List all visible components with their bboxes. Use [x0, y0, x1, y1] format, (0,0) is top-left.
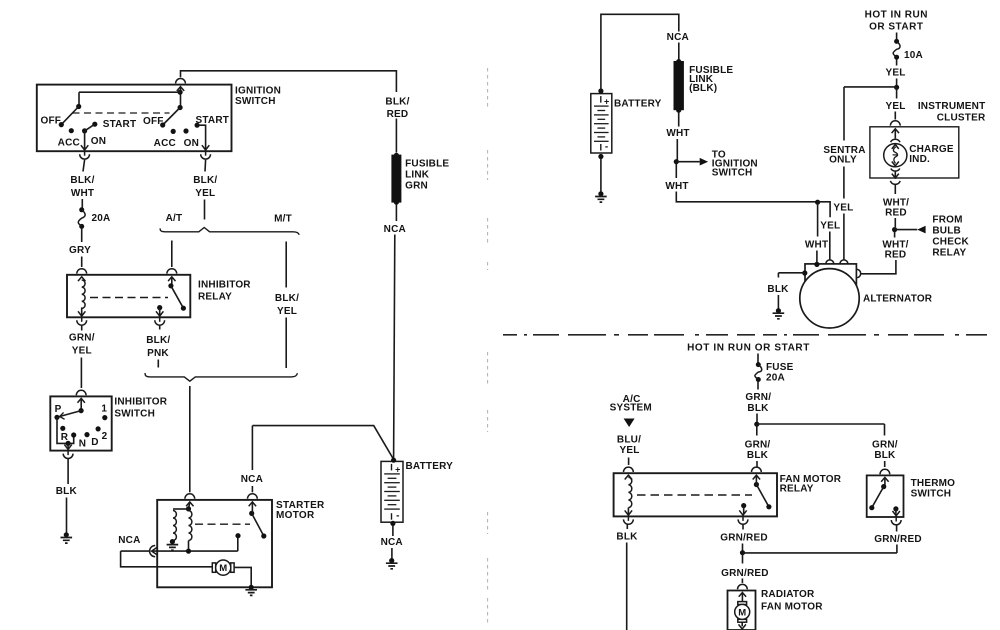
svg-text:RED: RED [885, 249, 907, 260]
svg-text:PNK: PNK [147, 348, 169, 359]
svg-text:SWITCH: SWITCH [712, 168, 753, 179]
svg-text:ACC: ACC [154, 138, 176, 149]
svg-text:BATTERY: BATTERY [406, 461, 454, 472]
svg-text:BLK: BLK [616, 532, 638, 543]
svg-text:ON: ON [91, 136, 106, 147]
svg-text:START: START [103, 119, 137, 130]
svg-text:FAN MOTOR: FAN MOTOR [761, 602, 823, 613]
svg-text:FUSE: FUSE [766, 362, 794, 373]
svg-text:OR START: OR START [869, 22, 923, 33]
svg-text:20A: 20A [766, 373, 785, 384]
svg-text:LINK: LINK [405, 170, 430, 181]
svg-text:WHT: WHT [666, 128, 689, 139]
svg-text:INHIBITOR: INHIBITOR [198, 280, 251, 291]
svg-text:YEL: YEL [820, 220, 840, 231]
svg-text:GRY: GRY [69, 245, 91, 256]
svg-text:HOT IN RUN OR START: HOT IN RUN OR START [687, 343, 810, 354]
svg-text:BLK/: BLK/ [70, 175, 94, 186]
svg-text:HOT IN RUN: HOT IN RUN [865, 10, 928, 21]
svg-text:-: - [396, 511, 399, 522]
svg-text:BLK/: BLK/ [385, 97, 409, 108]
svg-text:GRN/RED: GRN/RED [874, 534, 922, 545]
svg-text:BLK: BLK [56, 486, 78, 497]
svg-text:NCA: NCA [667, 32, 689, 43]
svg-text:BLK/: BLK/ [275, 293, 299, 304]
svg-text:YEL: YEL [72, 346, 92, 357]
svg-text:ACC: ACC [58, 137, 80, 148]
svg-text:WHT: WHT [71, 188, 94, 199]
svg-text:NCA: NCA [381, 537, 403, 548]
svg-text:+: + [604, 97, 609, 107]
svg-text:BLK/: BLK/ [193, 175, 217, 186]
svg-text:START: START [196, 115, 230, 126]
svg-text:GRN: GRN [405, 181, 428, 192]
svg-text:WHT: WHT [665, 181, 688, 192]
svg-text:P: P [55, 404, 62, 415]
svg-text:N: N [79, 439, 86, 450]
svg-text:RELAY: RELAY [932, 248, 966, 259]
svg-text:D: D [91, 437, 98, 448]
svg-text:YEL: YEL [619, 445, 639, 456]
svg-text:RED: RED [387, 109, 409, 120]
svg-text:BATTERY: BATTERY [614, 99, 662, 110]
svg-text:YEL: YEL [833, 203, 853, 214]
svg-text:CHECK: CHECK [932, 237, 969, 248]
svg-text:BLK: BLK [874, 450, 896, 461]
svg-text:YEL: YEL [885, 68, 905, 79]
svg-text:BLU/: BLU/ [617, 435, 641, 446]
svg-text:SWITCH: SWITCH [235, 96, 276, 107]
svg-text:INSTRUMENT: INSTRUMENT [918, 101, 986, 112]
svg-text:SWITCH: SWITCH [911, 489, 952, 500]
svg-text:RELAY: RELAY [198, 292, 232, 303]
svg-text:YEL: YEL [885, 101, 905, 112]
svg-text:(BLK): (BLK) [689, 83, 717, 94]
svg-text:FUSIBLE: FUSIBLE [405, 159, 449, 170]
svg-text:1: 1 [101, 404, 107, 415]
svg-text:2: 2 [102, 431, 108, 442]
svg-text:A/T: A/T [166, 213, 183, 224]
svg-text:YEL: YEL [277, 306, 297, 317]
svg-text:NCA: NCA [384, 224, 406, 235]
svg-text:OFF: OFF [143, 116, 164, 127]
svg-text:GRN/: GRN/ [745, 392, 771, 403]
svg-text:10A: 10A [904, 50, 923, 61]
svg-text:BLK: BLK [747, 403, 769, 414]
svg-text:GRN/: GRN/ [872, 439, 898, 450]
svg-text:ALTERNATOR: ALTERNATOR [863, 294, 933, 305]
svg-text:+: + [395, 464, 400, 474]
svg-text:20A: 20A [92, 213, 111, 224]
svg-text:SYSTEM: SYSTEM [610, 403, 652, 414]
svg-text:RADIATOR: RADIATOR [761, 589, 815, 600]
svg-text:SWITCH: SWITCH [114, 409, 155, 420]
svg-text:YEL: YEL [195, 188, 215, 199]
svg-text:BLK: BLK [767, 284, 789, 295]
svg-text:WHT: WHT [805, 240, 828, 251]
svg-text:IND.: IND. [909, 154, 930, 165]
svg-text:FROM: FROM [932, 215, 962, 226]
svg-text:RED: RED [885, 208, 907, 219]
svg-text:GRN/: GRN/ [69, 333, 95, 344]
svg-text:THERMO: THERMO [911, 478, 956, 489]
svg-text:R: R [61, 432, 69, 443]
svg-text:CLUSTER: CLUSTER [937, 113, 986, 124]
svg-text:M: M [219, 563, 227, 574]
svg-text:OFF: OFF [40, 115, 61, 126]
svg-text:GRN/RED: GRN/RED [720, 533, 768, 544]
svg-text:BLK/: BLK/ [146, 335, 170, 346]
svg-text:NCA: NCA [118, 535, 140, 546]
svg-text:NCA: NCA [241, 474, 263, 485]
svg-text:MOTOR: MOTOR [276, 510, 315, 521]
svg-text:INHIBITOR: INHIBITOR [114, 397, 167, 408]
svg-text:ON: ON [184, 138, 199, 149]
svg-text:M/T: M/T [274, 213, 292, 224]
svg-text:BULB: BULB [932, 226, 961, 237]
svg-text:-: - [605, 142, 608, 153]
svg-text:M: M [738, 607, 746, 618]
svg-text:ONLY: ONLY [829, 155, 857, 166]
svg-text:RELAY: RELAY [780, 484, 814, 495]
svg-text:GRN/RED: GRN/RED [721, 568, 769, 579]
svg-text:BLK: BLK [747, 450, 769, 461]
svg-text:GRN/: GRN/ [745, 439, 771, 450]
